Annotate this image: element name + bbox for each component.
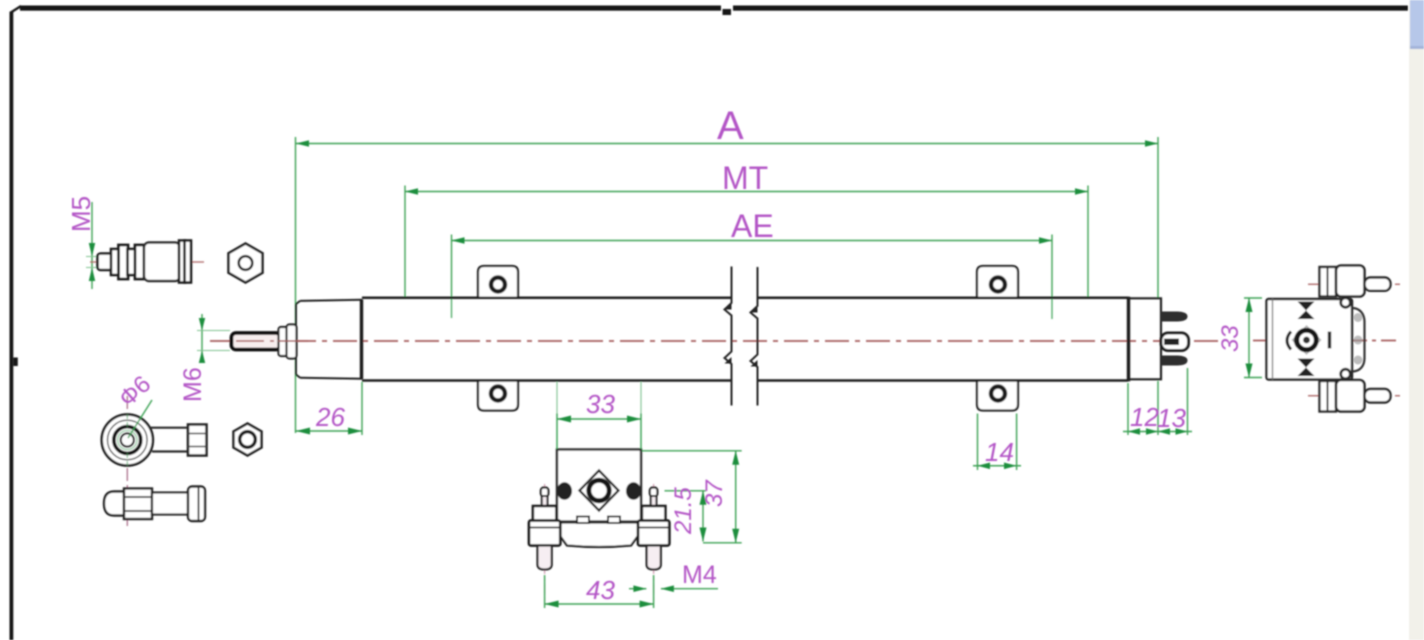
- end view corner screws: [1341, 298, 1351, 308]
- dimension M4: [629, 561, 718, 592]
- end view bottom screw symbol: [1298, 359, 1315, 377]
- svg-text:33: 33: [586, 389, 615, 419]
- stud bolt piece top-left: [90, 241, 205, 283]
- bracket center boss: [580, 471, 619, 511]
- svg-text:14: 14: [985, 437, 1014, 467]
- stud bolt piece lower-left: [104, 487, 205, 522]
- scrollbar thumb: [1410, 0, 1424, 49]
- connector end block: [1128, 297, 1161, 382]
- svg-text:Φ6: Φ6: [114, 371, 156, 413]
- bracket slot right: [626, 482, 641, 500]
- svg-text:MT: MT: [722, 160, 768, 196]
- end view top screw symbol: [1298, 302, 1315, 320]
- svg-text:26: 26: [315, 402, 345, 432]
- dimension M6: [179, 314, 230, 402]
- bracket detail rectangle: [557, 450, 641, 522]
- main horizontal centerline: [210, 340, 1218, 342]
- dimension M5: [66, 196, 100, 289]
- connector pin middle: [1161, 333, 1189, 351]
- body head block: [296, 300, 362, 380]
- svg-text:21.5: 21.5: [670, 487, 697, 535]
- frame top border: [20, 6, 1408, 16]
- end view center ring: [1293, 326, 1321, 354]
- dimension 37: [642, 451, 742, 543]
- mounting foot top-left: [478, 266, 518, 298]
- end view body: [1267, 299, 1353, 380]
- dimension 14: [973, 414, 1021, 471]
- dimension MT: [405, 160, 1088, 298]
- dimension 26: [296, 382, 362, 435]
- dimension 43: [545, 575, 654, 608]
- end view right clamp profile: [1352, 308, 1365, 372]
- end view top bolt: [1308, 266, 1400, 297]
- end view bar mark: [1328, 332, 1331, 349]
- break line right: [751, 267, 758, 406]
- svg-text:M4: M4: [682, 561, 717, 589]
- dimension 33 right vertical: [1217, 298, 1262, 378]
- hex nut face view lower: [234, 424, 262, 456]
- hex nut face view upper: [229, 244, 263, 283]
- mounting foot bottom-left: [478, 380, 518, 410]
- svg-text:43: 43: [586, 575, 615, 605]
- svg-text:M5: M5: [66, 196, 96, 232]
- mounting foot top-right: [977, 266, 1018, 298]
- svg-text:12: 12: [1130, 402, 1159, 432]
- dimension 33 bracket: [557, 382, 641, 449]
- svg-text:AE: AE: [731, 208, 774, 244]
- bracket bolt right: [638, 484, 669, 600]
- bracket bolt left: [529, 484, 560, 600]
- connector pin bottom: [1161, 356, 1188, 366]
- mounting foot bottom-right: [977, 380, 1018, 410]
- frame left border: [10, 6, 22, 640]
- connector pin top: [1161, 312, 1188, 322]
- label Φ6 with leader: [114, 371, 156, 438]
- sensor body tube: [362, 298, 1128, 381]
- end view paren mark: [1287, 332, 1291, 350]
- dimension AE: [452, 208, 1053, 319]
- svg-text:M6: M6: [179, 367, 207, 402]
- svg-text:13: 13: [1157, 403, 1186, 433]
- rod end bearing: [102, 396, 207, 526]
- dimension A: [296, 104, 1159, 433]
- piston rod: [232, 325, 309, 359]
- end view horizontal centerline: [1253, 340, 1396, 342]
- svg-text:33: 33: [1217, 325, 1244, 352]
- svg-text:37: 37: [701, 479, 728, 507]
- break line left: [725, 267, 732, 406]
- bracket slot left: [557, 482, 572, 500]
- dimension 21.5: [665, 487, 707, 542]
- bracket clamp strip: [557, 517, 642, 548]
- end view bottom bolt: [1308, 380, 1400, 412]
- dimension 12 13: [1123, 368, 1192, 435]
- scrollbar track: [1409, 0, 1424, 640]
- svg-text:A: A: [717, 104, 744, 148]
